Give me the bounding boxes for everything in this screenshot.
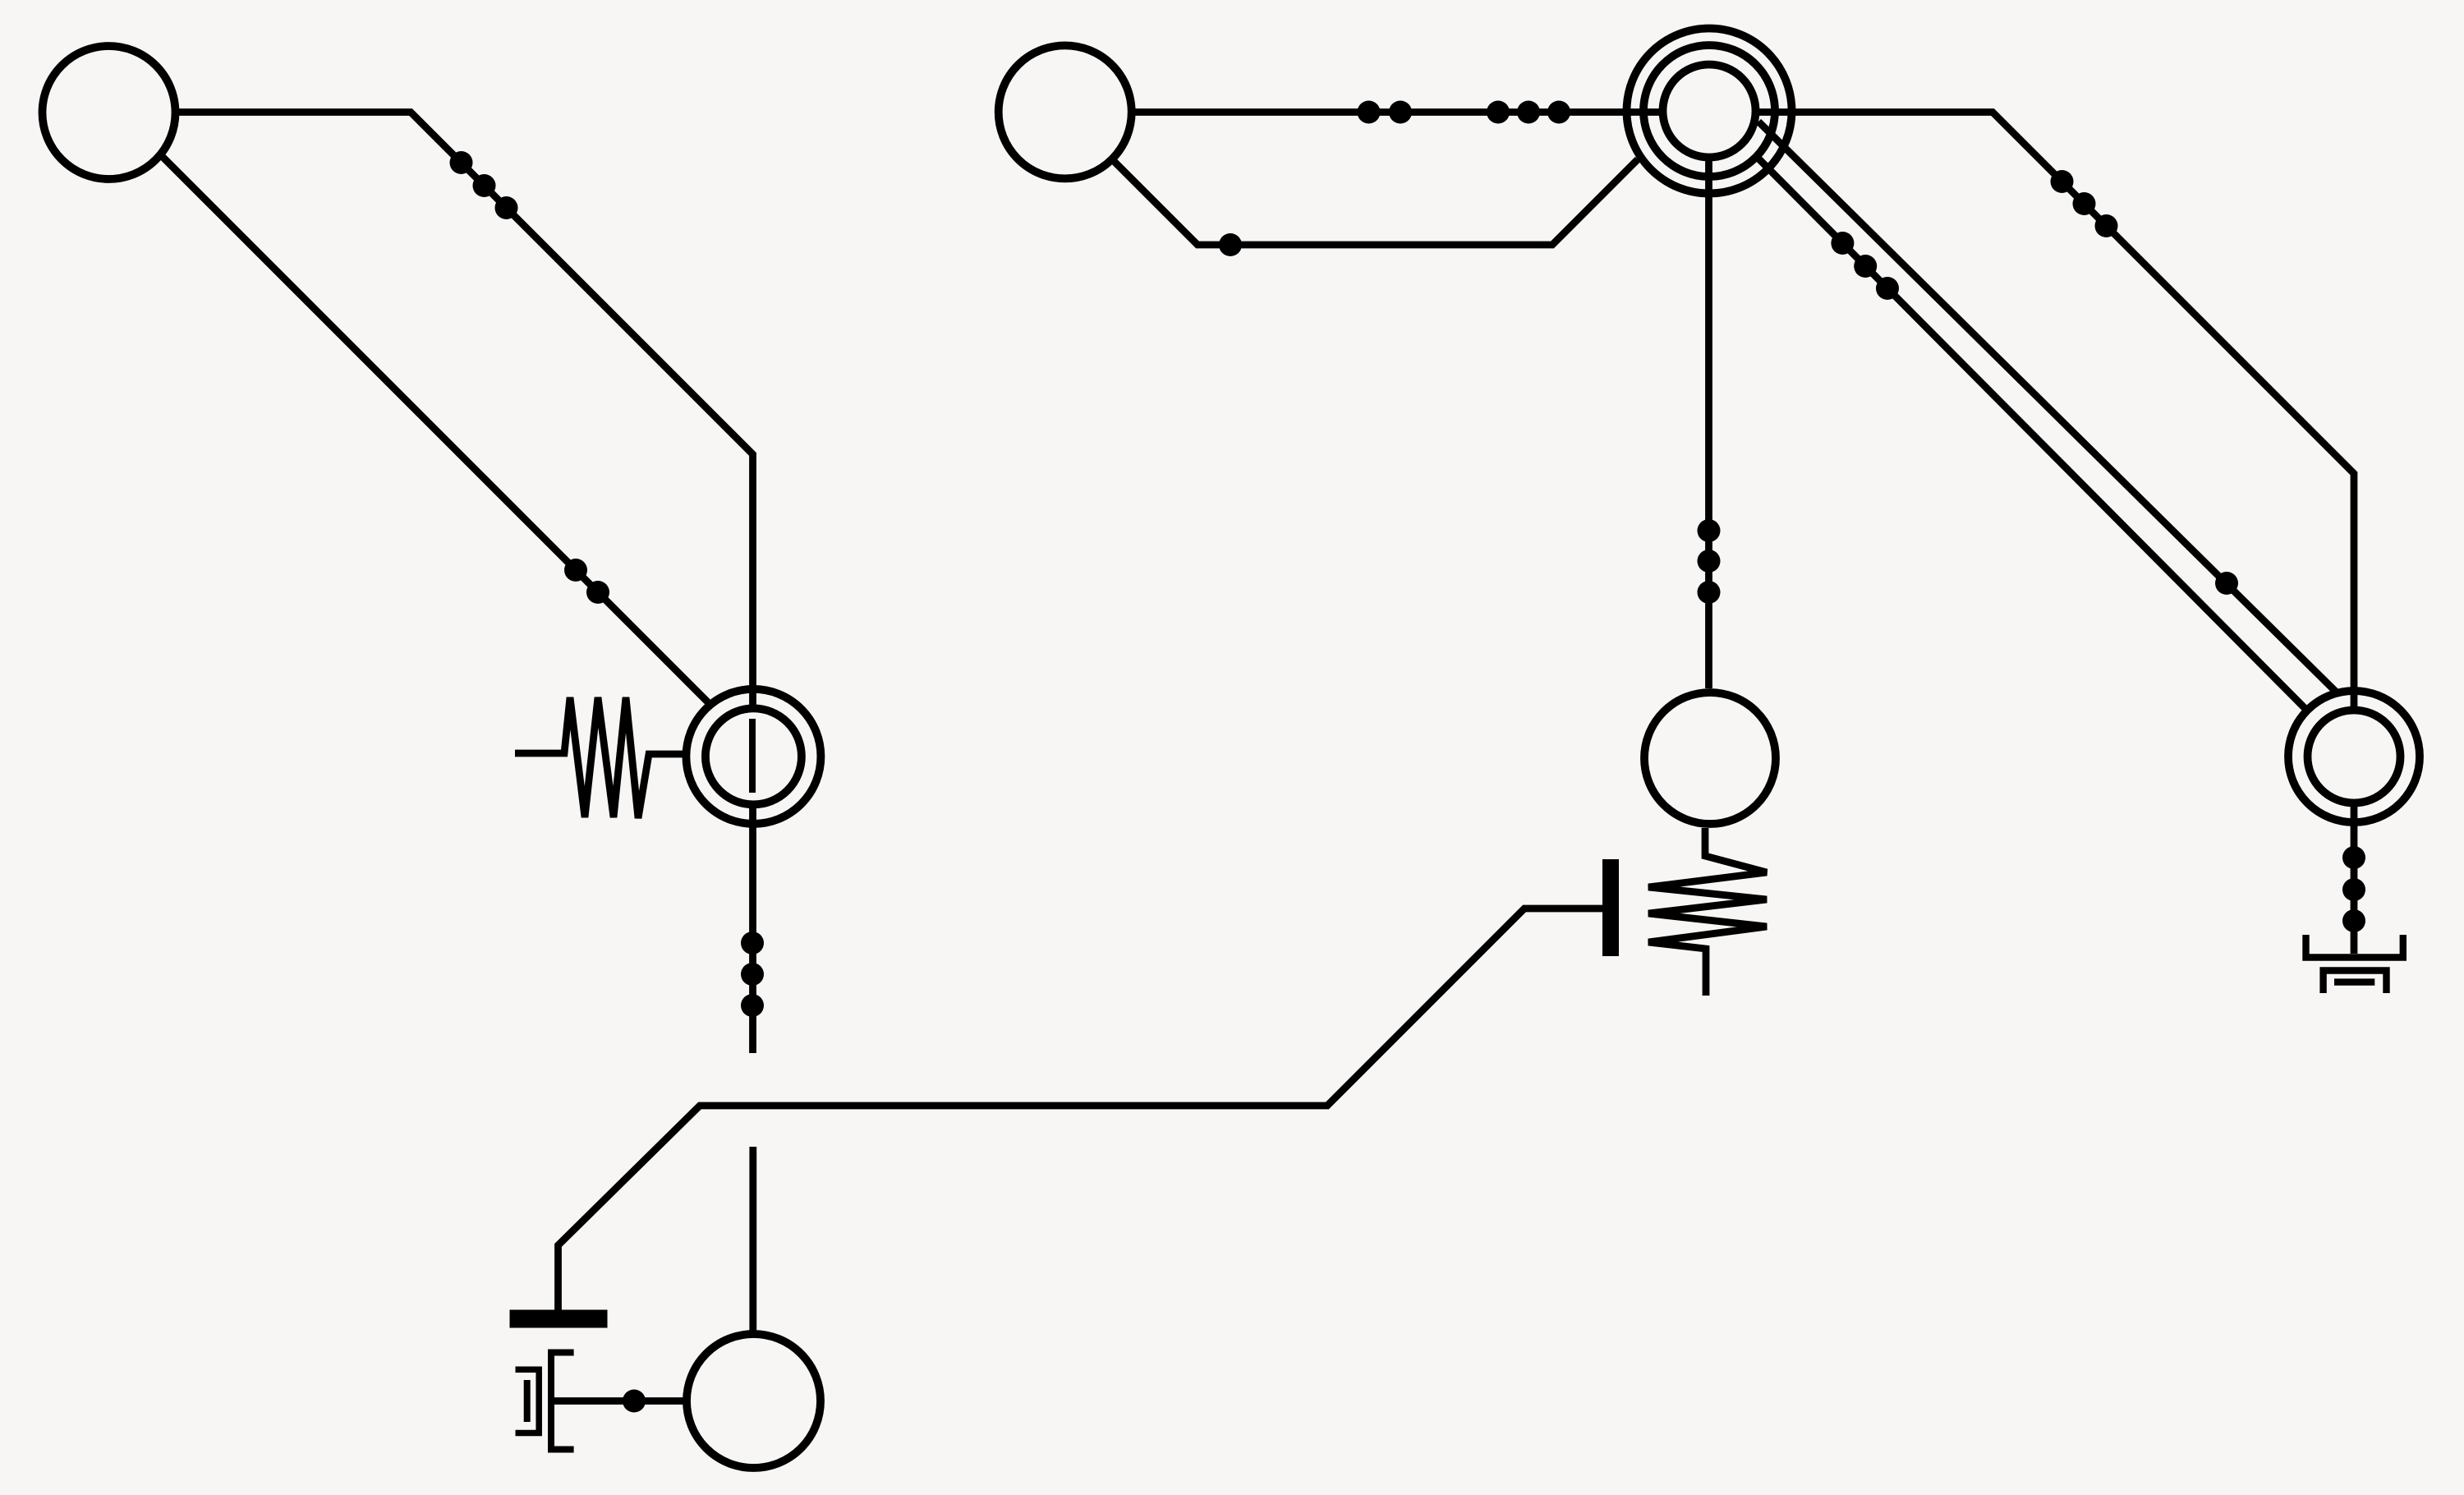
node dot on lower diagonal 1 — [564, 559, 587, 582]
node dot triple on bus 3 — [1547, 101, 1570, 124]
generator G4 circle — [687, 1334, 821, 1468]
parallel line L from T2 to T3 — [1758, 158, 2307, 711]
transformer T1 inner circle — [706, 708, 802, 804]
junction dot on GND1 wire — [623, 1390, 646, 1413]
node dot on line R — [2215, 572, 2238, 595]
node dot below T3 a — [2342, 846, 2365, 869]
ground GND2 inner bar — [2334, 978, 2374, 985]
node dot on lower diagonal 2 — [586, 581, 609, 604]
node dot on right diagonal 2 — [2073, 192, 2096, 215]
node dot below T2 b — [1698, 550, 1721, 573]
generator G2 circle — [999, 45, 1132, 178]
generator G3 circle — [1644, 692, 1776, 824]
node dot on G1 diagonal 1 — [450, 151, 473, 174]
node dot pair on bus 1 — [1358, 101, 1381, 124]
node dot below T1 a — [741, 931, 764, 954]
wire from generator G1 right to bend then diagonal then vertical through transformer T1 — [172, 113, 753, 1054]
node dot below T1 c — [741, 994, 764, 1017]
transformer T2 middle circle — [1643, 45, 1775, 177]
junction dot on lower wire — [1219, 233, 1242, 256]
node dot on G1 diagonal 3 — [495, 196, 518, 219]
ground GND2 lower bracket — [2324, 971, 2387, 994]
vertical wire T2 down to generator G3 — [1705, 161, 1712, 688]
ground bracket GND1 main bracket — [551, 1353, 574, 1450]
transformer T3 outer circle — [2288, 691, 2420, 822]
vertical wire above G4 — [749, 1147, 756, 1336]
node dot below T3 c — [2342, 909, 2365, 932]
node dot triple on bus 2 — [1517, 101, 1540, 124]
resistor R1 zigzag left of T1 — [515, 697, 683, 818]
node dot below T1 b — [741, 963, 764, 986]
generator G1 circle — [43, 46, 176, 179]
main bus wire G2 to T2 — [1129, 108, 1659, 116]
node dot on line L 2 — [1854, 255, 1877, 278]
ground GND2 U bracket — [2306, 935, 2403, 958]
node dot on G1 diagonal 2 — [473, 174, 496, 197]
node dot triple on bus 1 — [1487, 101, 1510, 124]
node dot pair on bus 2 — [1389, 101, 1412, 124]
resistor R2 vertical zigzag below G3 — [1648, 828, 1767, 996]
node dot on line L 1 — [1831, 232, 1854, 255]
jog wire W from plate B1 up to gate plate B2 — [559, 908, 1604, 1310]
transformer T2 inner circle — [1663, 65, 1756, 158]
transformer T1 outer circle — [686, 689, 821, 824]
node dot below T3 b — [2342, 878, 2365, 901]
gate plate B2 — [1602, 859, 1619, 956]
node dot below T2 c — [1698, 581, 1721, 604]
parallel line R from T2 to T3 — [1758, 122, 2338, 694]
transformer T1 center bar — [749, 719, 756, 793]
wire GND1 to generator G4 — [551, 1397, 683, 1405]
wire below T3 to ground — [2351, 806, 2358, 954]
transformer T3 inner circle — [2308, 711, 2401, 803]
wire from G1 lower edge diagonal to transformer T1 — [159, 153, 711, 706]
node dot below T2 a — [1698, 519, 1721, 542]
ground bracket GND1 outer bracket — [516, 1369, 540, 1433]
ground bracket GND1 inner bar — [524, 1380, 531, 1422]
node dot on right diagonal 1 — [2051, 170, 2074, 193]
node dot on right diagonal 3 — [2095, 214, 2118, 237]
node dot on line L 3 — [1876, 277, 1899, 300]
lower wire G2 to T2 — [1110, 157, 1638, 245]
transformer T2 outer circle — [1627, 29, 1792, 194]
thick plate B1 — [510, 1310, 608, 1328]
wire T2 right to bend diagonal and down to transformer T3 — [1758, 113, 2354, 708]
